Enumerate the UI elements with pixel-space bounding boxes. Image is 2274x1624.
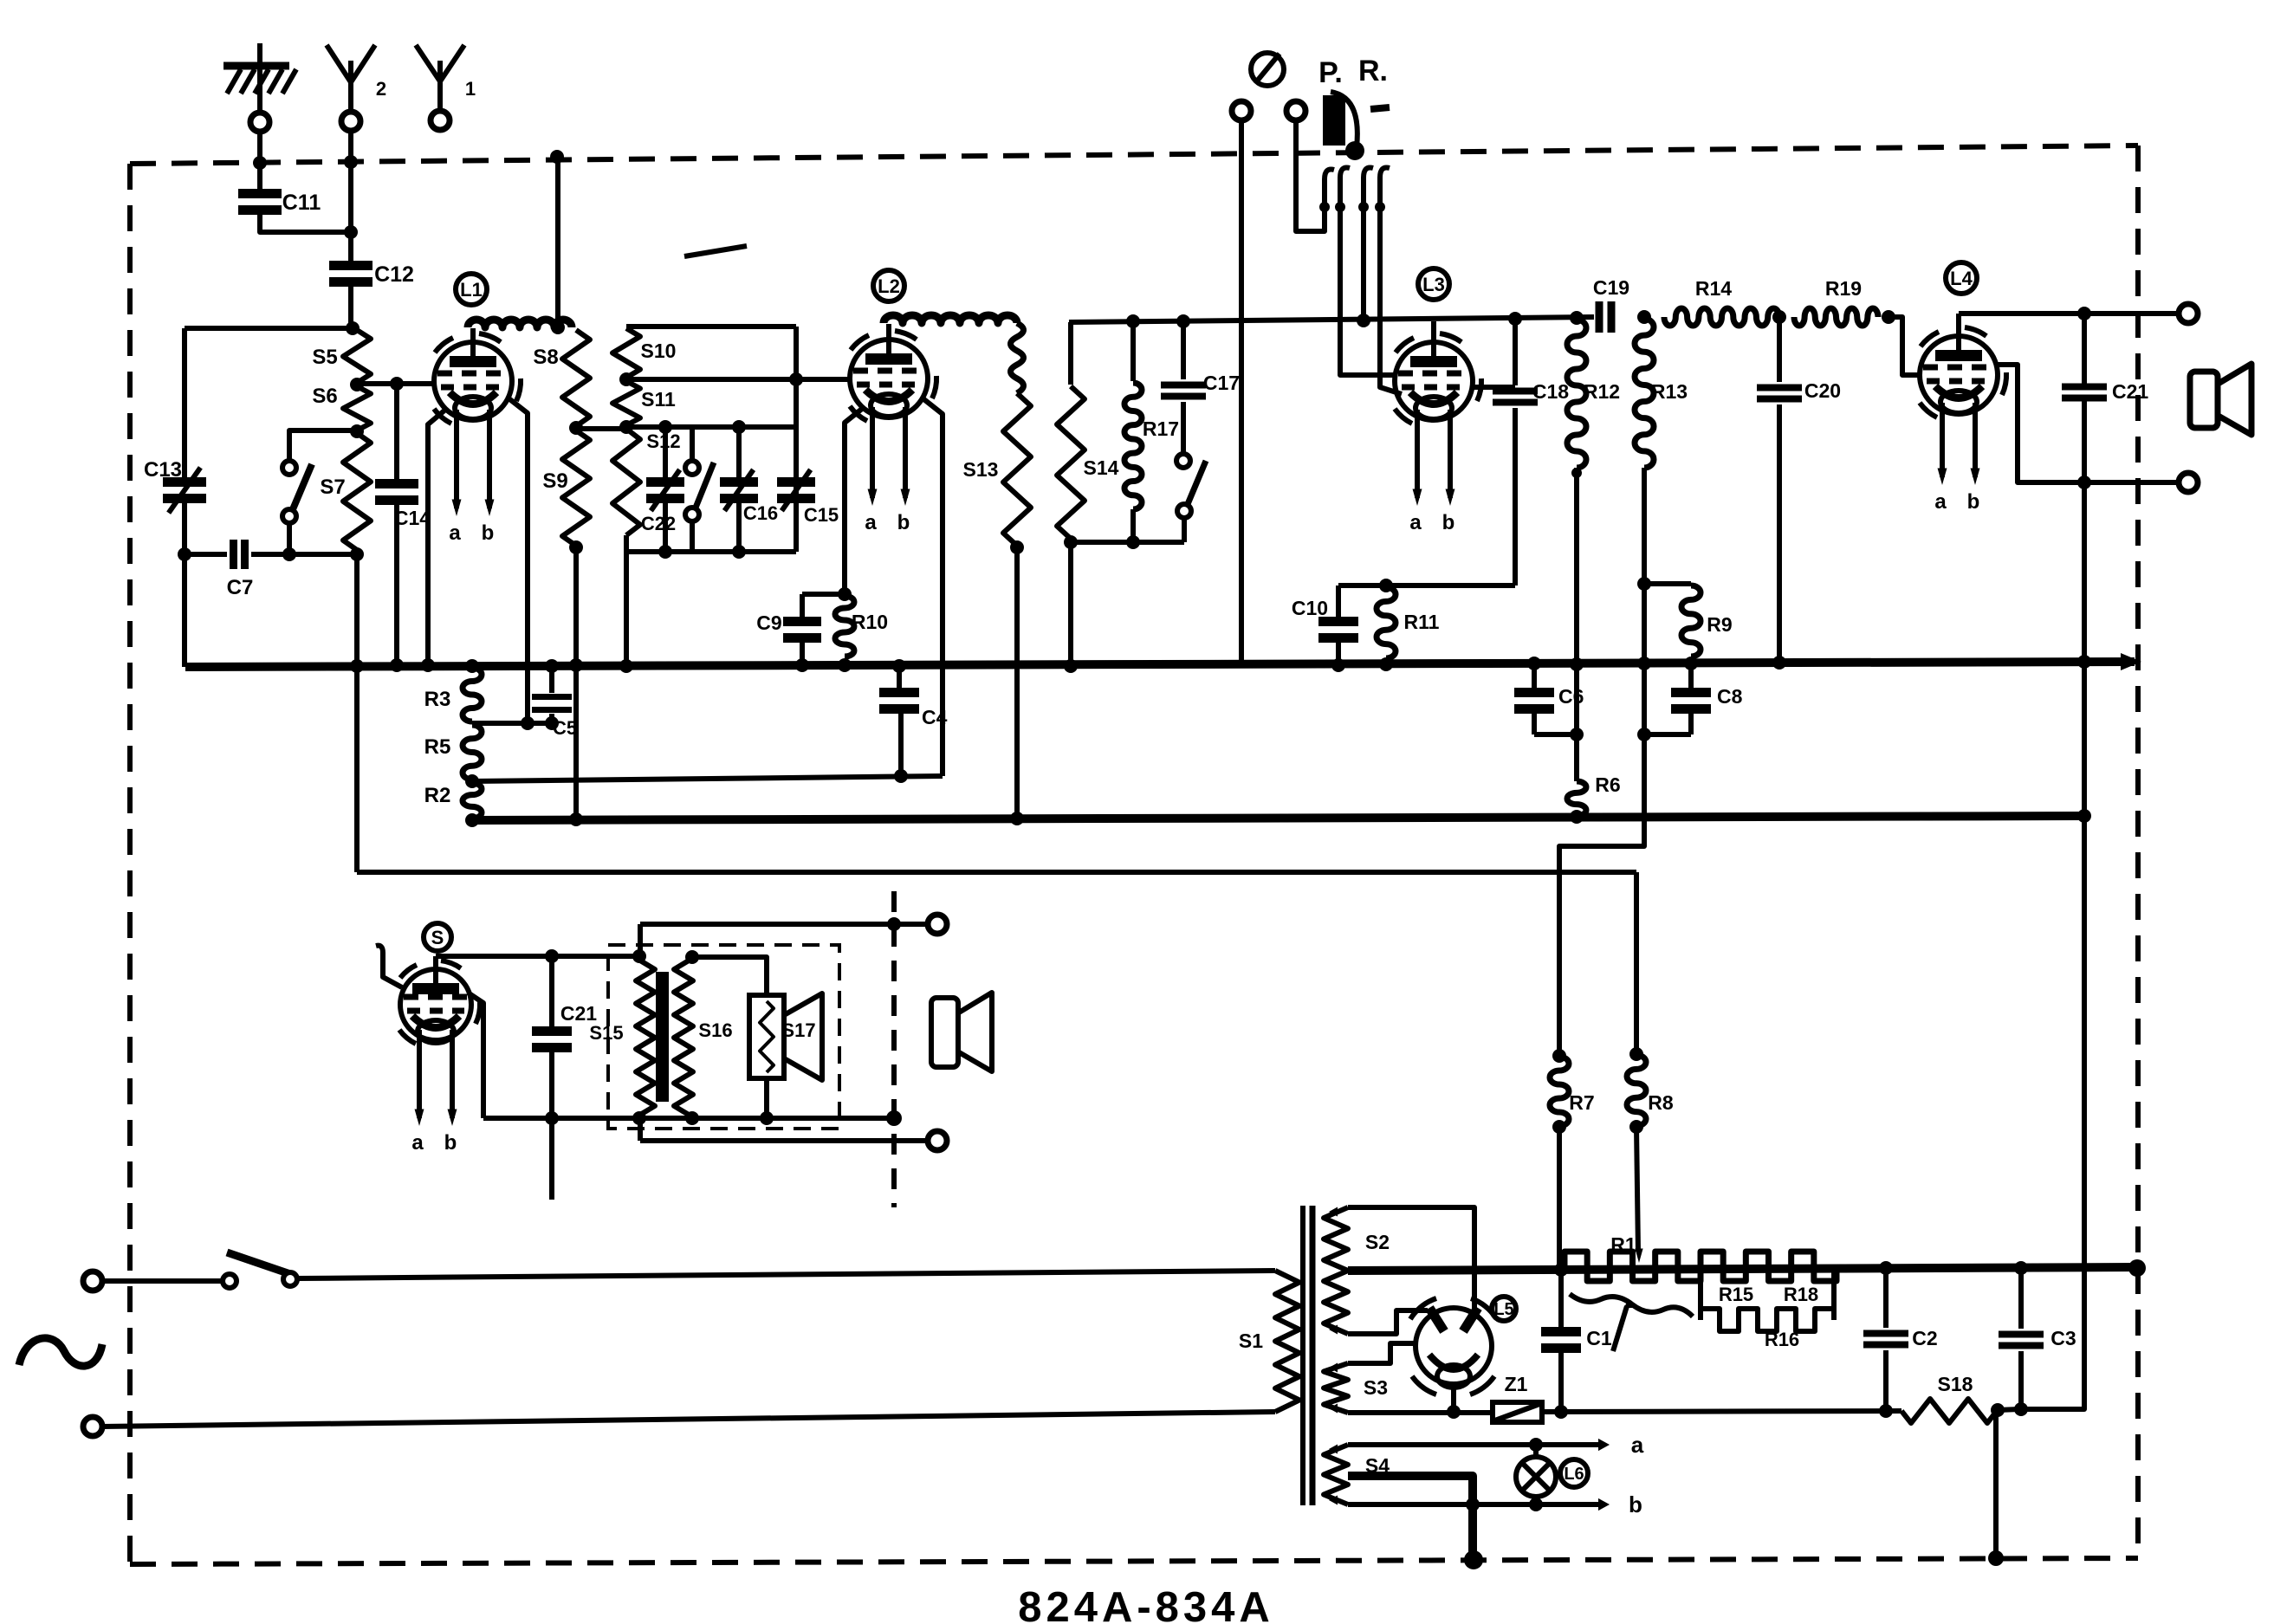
capacitor C18 bbox=[1493, 319, 1538, 586]
capacitor C21 (output) bbox=[2062, 387, 2107, 398]
junction primary top bbox=[632, 949, 646, 963]
svg-text:S18: S18 bbox=[1938, 1373, 1973, 1395]
junction S9 bottom bbox=[569, 540, 583, 554]
P.R. contact 4 bbox=[1375, 167, 1390, 212]
chassis dashed border (bottom) bbox=[130, 1558, 2138, 1564]
junction C10 on bus bbox=[1331, 658, 1345, 672]
P.R. contact 2 bbox=[1335, 167, 1350, 212]
label Z1 bbox=[1505, 1373, 1528, 1395]
junction R7 top bbox=[1552, 1049, 1566, 1063]
junction S14 on bus bbox=[1064, 659, 1078, 673]
label R9 bbox=[1707, 613, 1732, 636]
wire node to C13 branch bbox=[185, 326, 353, 331]
label C9 bbox=[756, 611, 781, 634]
tube L3 heaters bbox=[1409, 410, 1454, 534]
svg-text:R11: R11 bbox=[1404, 611, 1440, 633]
svg-text:R5: R5 bbox=[424, 735, 451, 759]
wire L1 anode down to R3 tap bbox=[508, 398, 528, 723]
resistor R19 bbox=[1794, 308, 1878, 326]
svg-text:a: a bbox=[1631, 1432, 1644, 1458]
label circle L4 bbox=[1946, 262, 1977, 294]
capacitor C7 (series) bbox=[234, 540, 245, 569]
speaker (middle) bbox=[931, 993, 992, 1071]
junction R10 top bbox=[838, 587, 852, 601]
resistor R13 bbox=[1635, 319, 1654, 468]
capacitor C9 bbox=[783, 594, 821, 665]
junction S7 bottom node bbox=[282, 547, 296, 561]
label R18 bbox=[1784, 1284, 1818, 1305]
wire L2 anode down to line C bbox=[922, 398, 943, 776]
transformer primary S15 bbox=[636, 958, 655, 1117]
svg-text:R16: R16 bbox=[1765, 1329, 1799, 1350]
wire line D (thick bias line) bbox=[472, 816, 2084, 820]
junction border wire top bbox=[550, 150, 564, 164]
junction R12 top bbox=[1570, 311, 1584, 325]
capacitor C6 bbox=[1514, 664, 1554, 734]
label S3 bbox=[1364, 1376, 1388, 1399]
wire C8 bottom rail bbox=[1644, 732, 1691, 737]
svg-text:C1: C1 bbox=[1586, 1327, 1612, 1349]
junction R2 bottom on line D bbox=[465, 813, 479, 827]
wire S14/R17 bottom link bbox=[1071, 540, 1184, 545]
resistor S13 bbox=[1003, 393, 1031, 546]
label R10 bbox=[852, 611, 888, 633]
junction C9 on bus bbox=[795, 658, 809, 672]
label S1 bbox=[1239, 1330, 1263, 1352]
label R6 bbox=[1595, 773, 1620, 796]
transformer dashed box bbox=[608, 945, 839, 1129]
wire external speaker top line bbox=[640, 922, 937, 927]
wire C21 vertical long bbox=[2082, 314, 2087, 1268]
wire HT+ line to filter bbox=[1542, 1411, 1901, 1412]
junction secondary bottom bbox=[685, 1111, 699, 1125]
svg-text:a: a bbox=[1934, 490, 1947, 514]
terminal ext speaker top bbox=[928, 915, 947, 934]
wire tuned block bottom rail bbox=[626, 549, 796, 554]
junction R12 on bus bbox=[1570, 657, 1584, 671]
wire S4 bottom / b line bbox=[1348, 1498, 1610, 1511]
label S11 bbox=[641, 388, 676, 411]
junction chassis bottom right bbox=[1988, 1550, 2004, 1566]
wire S7 top to S6 tap bbox=[289, 430, 355, 461]
junction C6 on bus bbox=[1527, 657, 1541, 670]
wire C9 top link bbox=[802, 592, 845, 597]
svg-text:R10: R10 bbox=[852, 611, 888, 633]
resistor R9 bbox=[1681, 586, 1701, 657]
junction S9 on bus bbox=[569, 658, 583, 672]
junction mid rail end diamond bbox=[886, 1110, 902, 1126]
voice coil S17 winding bbox=[760, 1001, 774, 1072]
svg-text:R7: R7 bbox=[1569, 1091, 1594, 1114]
wire HT rail (IF) bbox=[1069, 317, 1594, 322]
label C5 bbox=[553, 717, 577, 739]
label R1 bbox=[1610, 1233, 1636, 1256]
resistor R12 bbox=[1567, 320, 1586, 468]
label C21 middle bbox=[560, 1002, 597, 1025]
junction R3 top on bus bbox=[465, 659, 479, 673]
junction C21 mid bbox=[2077, 476, 2091, 489]
label R17 bbox=[1143, 417, 1179, 440]
wire S8/S9 tap to tuned block bbox=[576, 426, 626, 431]
ground symbol bbox=[224, 43, 296, 113]
junction R10 on bus bbox=[838, 658, 852, 672]
svg-text:C11: C11 bbox=[282, 191, 321, 215]
junction secondary top bbox=[685, 950, 699, 964]
label C19 bbox=[1593, 276, 1629, 299]
svg-text:C20: C20 bbox=[1804, 379, 1841, 402]
wire line E bbox=[357, 870, 1636, 875]
mains switch lever bbox=[227, 1252, 293, 1275]
label circle L2 bbox=[873, 270, 904, 301]
resistor S8 bbox=[562, 330, 590, 426]
rectifier tube L5 bbox=[1410, 1298, 1496, 1394]
wire S3 bottom / HT+ line bbox=[1348, 1410, 1493, 1415]
label S4 bbox=[1365, 1454, 1390, 1477]
label circle S bbox=[424, 923, 451, 951]
wire R7 to HT line bbox=[1557, 1127, 1562, 1269]
junction C21 top bbox=[2077, 307, 2091, 320]
wire line E corner down to R8 bbox=[1634, 872, 1639, 1053]
junction grid line / block right side bbox=[789, 372, 803, 386]
svg-text:S14: S14 bbox=[1084, 456, 1119, 479]
wire C12 to node S5-top bbox=[348, 282, 353, 330]
resistor R2 bbox=[463, 783, 482, 818]
svg-text:P.: P. bbox=[1318, 56, 1343, 89]
wire secondary top to voice coil bbox=[692, 957, 767, 995]
label R13 bbox=[1651, 380, 1688, 403]
wire S9 to bus and line D bbox=[573, 547, 579, 819]
terminal ext speaker bottom bbox=[928, 1131, 947, 1150]
svg-text:L6: L6 bbox=[1564, 1465, 1584, 1484]
junction R8 bottom bbox=[1629, 1120, 1643, 1134]
secondary S2 bbox=[1324, 1207, 1348, 1335]
junction filament on HT+ line bbox=[1447, 1405, 1461, 1419]
junction C21 on bus bbox=[2077, 655, 2091, 669]
wire L3 anode to C18 bbox=[1473, 385, 1515, 390]
wire detector bottom link bbox=[1338, 583, 1515, 588]
label S9 bbox=[542, 469, 567, 493]
junction S-chain on bus bbox=[350, 659, 364, 673]
wire C21m tail bbox=[549, 1118, 554, 1200]
wire C7 line left bbox=[185, 552, 227, 557]
antenna A2 symbol bbox=[327, 45, 375, 112]
junction bus end arrow at border bbox=[2121, 653, 2141, 670]
wire R13 down through bus and D bbox=[1559, 468, 1644, 1055]
P.R. contact 1 bbox=[1319, 169, 1334, 212]
resistor S11 bbox=[612, 381, 640, 425]
wire C11 to A2 line bbox=[260, 210, 351, 232]
junction C22 bottom bbox=[658, 545, 672, 559]
junction R19 right bbox=[1882, 310, 1895, 324]
wire S7 bottom stub bbox=[287, 523, 292, 554]
wire L2 top cap bbox=[886, 324, 891, 341]
junction S11 mid-rail tap bbox=[619, 420, 633, 434]
wire contact 3 to HT rail bbox=[1361, 178, 1366, 320]
label C18 bbox=[1532, 380, 1569, 403]
label S10 bbox=[641, 340, 677, 362]
svg-text:L3: L3 bbox=[1422, 274, 1445, 295]
junction S18 right node bbox=[1991, 1403, 2005, 1417]
inductor L2 anode coil bbox=[884, 315, 1017, 323]
label S14 bbox=[1084, 456, 1119, 479]
svg-text:R12: R12 bbox=[1584, 380, 1620, 403]
label S5 bbox=[312, 346, 337, 369]
capacitor C8 bbox=[1671, 663, 1711, 734]
wire S18 node to C21 corner bbox=[1998, 1409, 2019, 1410]
svg-text:S6: S6 bbox=[312, 385, 337, 408]
resistor S6 bbox=[343, 386, 371, 430]
secondary S3 bbox=[1324, 1363, 1348, 1414]
resistor R5 bbox=[463, 725, 482, 780]
junction L1 cathode on bus bbox=[421, 658, 435, 672]
label R5 bbox=[424, 735, 451, 759]
wire S-chain to bus and line E bbox=[354, 554, 360, 872]
junction voice coil bottom bbox=[760, 1111, 774, 1125]
resistor R16 (lower teeth) bbox=[1701, 1309, 1834, 1331]
junction C22 top bbox=[658, 420, 672, 434]
tube L2 heaters bbox=[865, 407, 910, 534]
svg-text:S7: S7 bbox=[320, 476, 345, 499]
junction anode wire on tap B bbox=[521, 716, 534, 730]
wire S18 node down to chassis bbox=[1993, 1410, 1999, 1558]
label S6 bbox=[312, 385, 337, 408]
junction node at S5 top bbox=[346, 321, 360, 335]
wire R16 left stub bbox=[1698, 1270, 1703, 1320]
wire S grid hook bbox=[376, 946, 402, 987]
chassis dashed border (right) bbox=[2135, 146, 2141, 1558]
junction C3 bottom bbox=[2014, 1402, 2028, 1416]
junction C20 on rail bbox=[1772, 310, 1786, 324]
wire C6 bottom rail bbox=[1534, 732, 1577, 737]
label antenna 2 bbox=[376, 78, 386, 100]
svg-text:1: 1 bbox=[465, 78, 476, 100]
resistor R17 bbox=[1124, 321, 1142, 542]
svg-text:b: b bbox=[444, 1131, 457, 1155]
dashed partition line (speaker outputs) bbox=[891, 891, 897, 1207]
tube L4 bbox=[1920, 327, 2006, 417]
wire tuned block mid rail bbox=[626, 424, 796, 430]
terminal output bottom bbox=[2179, 473, 2198, 492]
wire L2 cathode to R10 bbox=[845, 409, 862, 594]
svg-text:R18: R18 bbox=[1784, 1284, 1818, 1305]
junction C7-line left bbox=[178, 547, 191, 561]
svg-text:C3: C3 bbox=[2050, 1327, 2076, 1349]
junction lamp bottom bbox=[1529, 1498, 1543, 1511]
label S7 bbox=[320, 476, 345, 499]
label C13 bbox=[144, 458, 182, 482]
label C17 bbox=[1203, 372, 1240, 394]
svg-text:S8: S8 bbox=[533, 346, 558, 369]
wire pickup terminal 2 to contact 1 bbox=[1296, 120, 1325, 231]
label C12 bbox=[374, 262, 414, 287]
wire C13 to C7 line and to earth bus bbox=[182, 500, 187, 667]
junction R7 bottom bbox=[1552, 1120, 1566, 1134]
junction C21m bottom bbox=[545, 1111, 559, 1125]
speaker horn (internal) bbox=[784, 993, 822, 1080]
wire contact 4 to L3 cathode bbox=[1380, 178, 1402, 394]
junction S6-S7 tap bbox=[350, 424, 364, 438]
svg-text:L5: L5 bbox=[1493, 1300, 1513, 1319]
label S17 bbox=[781, 1019, 815, 1041]
svg-text:C13: C13 bbox=[144, 458, 182, 482]
capacitor C11 bbox=[238, 189, 282, 215]
junction R6 on line D bbox=[1570, 810, 1584, 824]
terminal pickup 2 bbox=[1286, 101, 1305, 120]
wire rail left end to S14 bbox=[1068, 322, 1073, 385]
terminal output top bbox=[2179, 304, 2198, 323]
label C10 bbox=[1292, 597, 1328, 619]
resistor S18 bbox=[1901, 1399, 1997, 1423]
tube L1 heaters bbox=[449, 410, 494, 545]
capacitor C21 (middle) bbox=[532, 956, 572, 1118]
fuse Z1 bbox=[1493, 1402, 1542, 1422]
svg-text:C16: C16 bbox=[743, 502, 778, 524]
wire S2 top to rectifier anode bbox=[1348, 1207, 1474, 1310]
dial lamp L6 bbox=[1516, 1445, 1556, 1504]
junction R17 bottom bbox=[1126, 535, 1140, 549]
label S12 bbox=[646, 430, 680, 452]
junction C6 rail bbox=[1570, 728, 1584, 741]
resistor S5 bbox=[343, 330, 371, 383]
svg-text:C12: C12 bbox=[374, 262, 414, 287]
wire S13 to line D bbox=[1014, 546, 1020, 818]
label a (dial lamp) bbox=[1631, 1432, 1644, 1458]
wire tap B (R3-R5) bbox=[472, 721, 552, 726]
svg-text:C17: C17 bbox=[1203, 372, 1240, 394]
wire L1 grid line bbox=[357, 381, 435, 386]
wire pickup terminal 1 down to earth bus bbox=[1239, 120, 1244, 664]
stray mark bbox=[684, 246, 747, 256]
label C16 bbox=[743, 502, 778, 524]
capacitor C19 (series) bbox=[1599, 301, 1611, 333]
label circle L6 bbox=[1560, 1459, 1588, 1487]
svg-text:R19: R19 bbox=[1825, 277, 1862, 300]
label antenna 1 bbox=[465, 78, 476, 100]
wire L1 top cap bbox=[470, 328, 476, 344]
resistor S9 bbox=[562, 430, 590, 546]
junction R17 top on rail bbox=[1126, 314, 1140, 328]
capacitor C2 bbox=[1863, 1269, 1908, 1411]
wire S4 centre thick to chassis bbox=[1348, 1476, 1473, 1558]
svg-text:S1: S1 bbox=[1239, 1330, 1263, 1352]
label R3 bbox=[424, 688, 451, 711]
svg-text:b: b bbox=[897, 511, 910, 534]
wire L3 top cap stub bbox=[1431, 321, 1436, 344]
tube S heaters bbox=[411, 1030, 457, 1155]
junction C14 tap bbox=[390, 377, 404, 391]
wire R9 top link bbox=[1644, 581, 1691, 586]
junction S9 on line D bbox=[569, 812, 583, 826]
secondary S4 bbox=[1324, 1445, 1348, 1505]
antenna A1 terminal bbox=[431, 111, 450, 130]
speaker (main) bbox=[2190, 364, 2251, 435]
svg-text:L4: L4 bbox=[1950, 268, 1973, 289]
antenna A1 symbol bbox=[416, 45, 464, 111]
junction C5 bottom on tap B bbox=[545, 716, 559, 730]
terminal pickup 1 bbox=[1232, 101, 1251, 120]
svg-text:R3: R3 bbox=[424, 688, 451, 711]
junction C21m top bbox=[545, 949, 559, 963]
junction S8-S9 bbox=[569, 421, 583, 435]
svg-text:S: S bbox=[431, 927, 444, 948]
wire output top line bbox=[1959, 311, 2188, 316]
wire L4 top cap stub bbox=[1956, 314, 1961, 338]
junction C4 on line C bbox=[894, 769, 908, 783]
wire ground terminal through border to C11 bbox=[257, 132, 262, 191]
svg-text:S5: S5 bbox=[312, 346, 337, 369]
svg-text:824A-834A: 824A-834A bbox=[1018, 1584, 1274, 1624]
wire S3 top to filament bbox=[1348, 1343, 1416, 1363]
label R16 bbox=[1765, 1329, 1799, 1350]
svg-text:S16: S16 bbox=[698, 1019, 732, 1041]
svg-text:C15: C15 bbox=[804, 504, 839, 526]
chassis dashed border (top) bbox=[130, 146, 2138, 164]
capacitor C14 bbox=[375, 384, 418, 664]
label circle L1 bbox=[456, 274, 487, 305]
junction R11 on bus bbox=[1379, 657, 1393, 671]
svg-text:R6: R6 bbox=[1595, 773, 1620, 796]
label C3 bbox=[2050, 1327, 2076, 1349]
resistor S6 lower section bbox=[343, 433, 371, 550]
resistor S14 bbox=[1057, 386, 1085, 539]
wire HT line (thick) bbox=[1348, 1267, 2138, 1271]
junction C14 on bus bbox=[390, 658, 404, 672]
label C15 bbox=[804, 504, 839, 526]
transformer core (middle) bbox=[656, 972, 669, 1102]
R1 wiper arrow bbox=[1613, 1299, 1634, 1351]
junction R13 top bbox=[1637, 310, 1651, 324]
switch S12 bbox=[685, 428, 714, 552]
label C8 bbox=[1717, 685, 1743, 708]
wire S-chain bottom bbox=[624, 535, 629, 552]
svg-text:C10: C10 bbox=[1292, 597, 1328, 619]
switch S17b bbox=[1176, 454, 1206, 542]
resistor R6 bbox=[1567, 781, 1586, 816]
svg-text:R1: R1 bbox=[1610, 1233, 1636, 1256]
label R14 bbox=[1695, 277, 1732, 300]
svg-text:C22: C22 bbox=[641, 513, 676, 534]
svg-text:S2: S2 bbox=[1365, 1231, 1390, 1253]
wire tuned block top rail bbox=[626, 324, 796, 329]
wire A2 to C12 bbox=[348, 131, 353, 262]
svg-text:b: b bbox=[1967, 490, 1980, 514]
svg-text:a: a bbox=[449, 521, 461, 545]
label R12 bbox=[1584, 380, 1620, 403]
wire R19 to L4 grid bbox=[1889, 317, 1921, 375]
junction HT end at border bbox=[2128, 1259, 2146, 1277]
svg-text:b: b bbox=[482, 521, 495, 545]
svg-text:a: a bbox=[865, 511, 877, 534]
svg-text:C2: C2 bbox=[1912, 1327, 1937, 1349]
junction R8 top bbox=[1629, 1047, 1643, 1061]
resistor S10 bbox=[612, 328, 640, 378]
label R8 bbox=[1648, 1091, 1674, 1114]
svg-text:a: a bbox=[411, 1131, 424, 1155]
wire R8 to R1 wiper bbox=[1635, 1127, 1642, 1263]
svg-text:C14: C14 bbox=[394, 507, 431, 529]
junction ground wire on border bbox=[253, 156, 267, 170]
mains switch contact b bbox=[283, 1272, 297, 1286]
svg-text:R15: R15 bbox=[1719, 1284, 1753, 1305]
svg-text:b: b bbox=[1442, 511, 1455, 534]
wire R16 right stub bbox=[1831, 1268, 1837, 1320]
svg-text:b: b bbox=[1629, 1491, 1642, 1517]
junction tap C bbox=[465, 774, 479, 788]
svg-text:L1: L1 bbox=[460, 279, 483, 301]
capacitor C3 bbox=[1999, 1268, 2044, 1409]
junction C4 on bus bbox=[892, 659, 906, 673]
wire L4 anode to output bottom line bbox=[1995, 365, 2188, 482]
